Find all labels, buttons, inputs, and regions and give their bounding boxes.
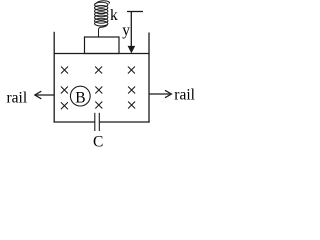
- field symbol x row3: [61, 102, 135, 110]
- svg-text:rail: rail: [7, 89, 28, 106]
- svg-text:rail: rail: [174, 86, 195, 103]
- left rail arrow: [35, 91, 54, 99]
- bottom wire right segment: [99, 121, 149, 123]
- field label B circle: [70, 86, 90, 106]
- bottom wire left segment: [54, 121, 95, 123]
- displacement arrow y (T-bar, shaft, head): [127, 12, 143, 48]
- svg-text:y: y: [122, 22, 130, 39]
- left rail wall: [53, 32, 55, 123]
- capacitor C plates: [94, 113, 96, 131]
- mass block: [85, 37, 120, 54]
- right rail arrow: [149, 90, 171, 97]
- svg-text:k: k: [110, 7, 118, 24]
- field symbol x row1: [61, 67, 135, 74]
- field symbol x row2: [61, 87, 135, 94]
- svg-text:C: C: [93, 133, 103, 150]
- spring k coil: [95, 1, 110, 37]
- top conducting bar: [54, 53, 150, 55]
- svg-text:B: B: [75, 90, 85, 107]
- right rail wall: [148, 33, 150, 123]
